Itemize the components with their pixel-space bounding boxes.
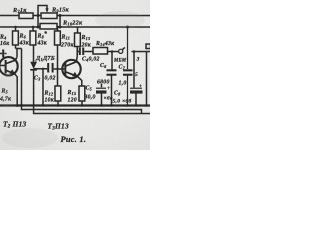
main bus (minus rail) y=105.5: [0, 104, 150, 106]
junction dots mid: [42, 68, 59, 71]
wire: output line right y=51.5: [132, 51, 151, 53]
resistor R9 (variable, with arrow loop): [41, 13, 57, 19]
wire: T3 collector riser: [75, 47, 78, 62]
wire: rail connector x=60: [59, 15, 61, 26]
resistor R11: [54, 27, 60, 86]
cut element top right: [146, 44, 151, 49]
junction dots top rails: [14, 14, 129, 29]
wire: C7 to bus: [126, 76, 128, 106]
capacitor C7: [123, 70, 133, 74]
resistor R14: [93, 48, 108, 55]
wire: T2 emitter to bus: [15, 74, 17, 106]
resistor R7: [19, 13, 33, 19]
wire: second rail y=27: [0, 26, 150, 28]
wire: tap to bus x=43: [42, 68, 44, 105]
resistor R10: [40, 23, 57, 29]
wire: top supply rail segments y=15.5: [0, 14, 150, 16]
transistor T3 (PNP П13): [62, 60, 80, 78]
electrolytic C5: [96, 84, 107, 106]
wire: C3 left lead from diode line: [34, 68, 48, 70]
wire: C6 drop: [111, 52, 113, 70]
wire: diode anode down, corner to lower rail: [34, 70, 150, 114]
capacitor C3: [48, 63, 52, 73]
wire: T2 base lead: [0, 64, 5, 66]
capacitor C6: [107, 70, 117, 74]
electrolytic C8: [130, 88, 143, 105]
wire: rail connector x=38: [37, 15, 39, 26]
wire: T2 collector bar and risers: [15, 48, 21, 105]
T2 emitter arrowhead: [9, 69, 15, 74]
T3 emitter arrowhead: [72, 72, 78, 77]
wire: transformer box right leg x=146.5: [145, 52, 147, 106]
wire: transformer box left leg x=134: [133, 52, 135, 88]
wire: R14 to jack node: [108, 51, 119, 53]
wire: rheostat arm loop over R9: [38, 5, 47, 15]
diode D1 (Д7Б): [30, 62, 37, 70]
capacitor C4: [77, 48, 93, 56]
arrowhead of R9 arm: [45, 8, 48, 13]
resistor R8: [30, 27, 36, 45]
wire: T3 emitter to R15: [77, 76, 81, 86]
resistor R15: [79, 86, 85, 106]
faint scan blotches: [0, 11, 145, 148]
resistor R12: [55, 86, 61, 106]
middle rail y=109.5: [21, 105, 141, 113]
wire: C7 line from rail: [127, 27, 129, 69]
resistor R13: [75, 27, 81, 46]
wire: C6 to bus: [110, 76, 112, 106]
resistor R6: [13, 27, 19, 49]
capacitor at left edge (input coupling, cut): [0, 49, 7, 57]
wire: R8 to diode: [33, 45, 35, 62]
wire: C3 right lead to T3 base: [54, 68, 65, 70]
bus junction dots: [16, 50, 148, 107]
jack terminal circle: [119, 47, 125, 53]
scan grain overlay: [0, 0, 150, 150]
paper background: [0, 0, 150, 150]
transistor T2 (PNP П13): [0, 57, 18, 75]
